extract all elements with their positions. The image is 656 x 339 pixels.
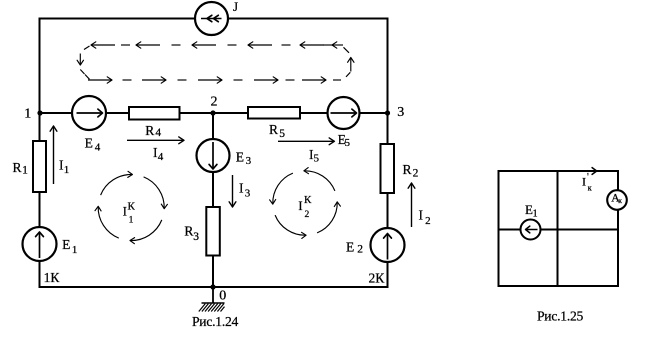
svg-text:2: 2 (211, 94, 218, 109)
svg-text:2К: 2К (369, 271, 386, 286)
svg-text:E: E (62, 237, 70, 252)
svg-text:3: 3 (246, 155, 252, 167)
svg-text:1: 1 (64, 164, 69, 176)
svg-text:': ' (587, 172, 589, 183)
svg-text:R: R (269, 122, 278, 137)
svg-text:к: к (618, 196, 622, 205)
svg-text:2: 2 (413, 167, 419, 179)
svg-text:I: I (419, 208, 424, 223)
svg-text:3: 3 (397, 105, 404, 120)
svg-text:5: 5 (279, 128, 285, 140)
svg-text:R: R (13, 160, 22, 175)
svg-text:J: J (233, 0, 238, 14)
svg-text:К: К (128, 201, 136, 213)
svg-text:I: I (239, 181, 244, 196)
svg-text:4: 4 (155, 127, 161, 139)
svg-text:I: I (298, 199, 302, 213)
svg-text:R: R (403, 162, 412, 177)
svg-text:К: К (304, 194, 312, 206)
svg-text:E: E (346, 240, 354, 255)
svg-text:R: R (145, 123, 154, 138)
svg-text:I: I (582, 175, 586, 189)
svg-text:3: 3 (193, 231, 199, 243)
svg-text:1: 1 (533, 209, 538, 220)
svg-text:2: 2 (357, 244, 363, 256)
svg-text:3: 3 (245, 188, 251, 200)
svg-text:к: к (588, 184, 592, 193)
svg-text:0: 0 (219, 289, 226, 304)
svg-text:Рис.1.25: Рис.1.25 (537, 308, 584, 323)
svg-text:1: 1 (129, 216, 134, 226)
svg-text:4: 4 (158, 151, 164, 163)
svg-text:2: 2 (425, 215, 431, 227)
svg-text:1: 1 (22, 165, 28, 177)
svg-text:1: 1 (24, 106, 31, 121)
svg-text:4: 4 (95, 142, 101, 154)
svg-text:1: 1 (72, 244, 78, 256)
svg-text:5: 5 (314, 153, 320, 165)
svg-text:1К: 1К (44, 270, 61, 285)
svg-text:E: E (236, 149, 244, 164)
svg-text:2: 2 (305, 210, 310, 220)
svg-text:R: R (184, 223, 193, 238)
svg-text:5: 5 (345, 137, 351, 149)
svg-text:Рис.1.24: Рис.1.24 (192, 314, 239, 329)
svg-text:I: I (123, 205, 127, 219)
svg-text:E: E (85, 136, 93, 151)
